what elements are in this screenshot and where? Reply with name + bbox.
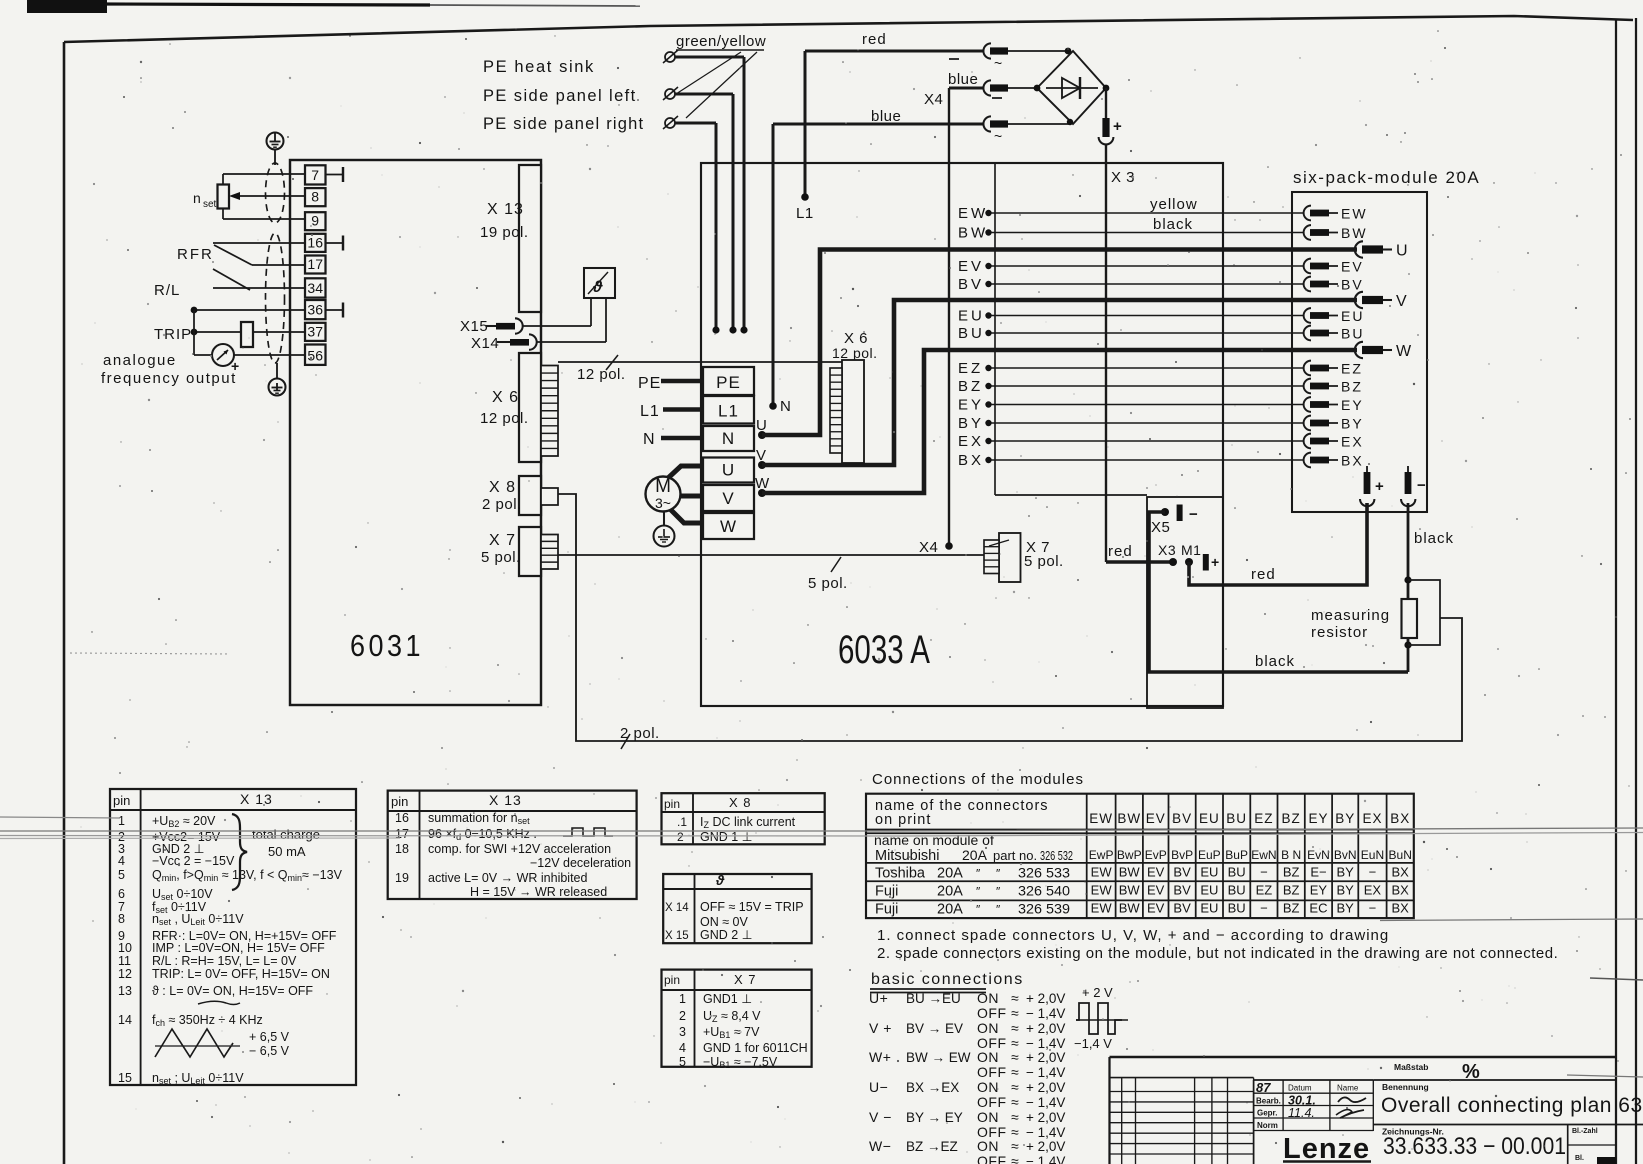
svg-text:BW: BW	[1117, 811, 1141, 826]
svg-text:−: −	[1369, 865, 1377, 880]
svg-text:≈: ≈	[1011, 1020, 1019, 1036]
svg-text:20A: 20A	[962, 847, 988, 863]
svg-text:BY: BY	[1337, 883, 1355, 898]
svg-text:13: 13	[118, 984, 132, 998]
svg-text:EV: EV	[1146, 811, 1166, 826]
svg-text:4: 4	[118, 854, 125, 868]
svg-text:EW: EW	[1091, 901, 1113, 916]
svg-text:ϑ: ϑ	[715, 872, 725, 888]
svg-text:− 1,4V: − 1,4V	[1026, 1036, 1065, 1051]
svg-text:X5: X5	[1151, 519, 1170, 536]
svg-text:EU: EU	[1341, 308, 1364, 324]
svg-text:EY: EY	[958, 397, 984, 414]
svg-text:19: 19	[395, 871, 409, 885]
svg-text:9: 9	[311, 213, 319, 229]
svg-text:2 pol.: 2 pol.	[620, 725, 660, 742]
svg-text:X15: X15	[460, 318, 488, 335]
svg-text:≈: ≈	[1011, 1153, 1019, 1164]
svg-text:+ 2,0V: + 2,0V	[1026, 1139, 1065, 1154]
svg-text:pin: pin	[113, 793, 130, 808]
svg-text:BvN: BvN	[1334, 848, 1357, 862]
svg-text:pin: pin	[391, 794, 408, 809]
svg-text:EY: EY	[1341, 397, 1364, 413]
svg-text:EuP: EuP	[1198, 848, 1221, 862]
svg-text:BZ: BZ	[1283, 865, 1300, 880]
svg-text:GND 2 ⊥: GND 2 ⊥	[700, 928, 753, 942]
svg-text:EY: EY	[1310, 883, 1328, 898]
svg-text:Lenze: Lenze	[1283, 1133, 1370, 1164]
svg-text:326 539: 326 539	[1018, 901, 1070, 917]
svg-text:U−: U−	[869, 1079, 888, 1095]
svg-text:V +: V +	[869, 1020, 892, 1036]
svg-text:− 1,4V: − 1,4V	[1026, 1125, 1065, 1140]
svg-text:6033 A: 6033 A	[838, 628, 930, 672]
svg-text:BW: BW	[1119, 883, 1141, 898]
svg-text:R/L: R/L	[154, 282, 180, 299]
svg-text:5 pol.: 5 pol.	[808, 575, 848, 592]
svg-text:EZ: EZ	[958, 360, 983, 377]
svg-text:12: 12	[118, 967, 132, 981]
svg-text:−UB1 ≈ −7,5V: −UB1 ≈ −7,5V	[703, 1055, 778, 1070]
svg-text:Bearb.: Bearb.	[1256, 1097, 1281, 1106]
svg-text:EV: EV	[1147, 883, 1165, 898]
svg-text:37: 37	[307, 323, 323, 339]
svg-text:BZ: BZ	[1283, 883, 1300, 898]
svg-text:326 533: 326 533	[1018, 865, 1070, 881]
svg-text:Toshiba: Toshiba	[875, 866, 926, 882]
svg-text:2: 2	[679, 1009, 686, 1023]
svg-text:OFF ≈ 15V = TRIP: OFF ≈ 15V = TRIP	[700, 900, 804, 914]
svg-text:− 6,5 V: − 6,5 V	[249, 1044, 290, 1058]
svg-text:10: 10	[118, 941, 132, 955]
svg-text:20A: 20A	[937, 866, 963, 882]
svg-text:16: 16	[307, 234, 323, 250]
svg-text:BX: BX	[958, 452, 984, 469]
svg-text:Bl.: Bl.	[1575, 1155, 1584, 1162]
svg-text:5 pol.: 5 pol.	[481, 549, 521, 566]
svg-text:12 pol.: 12 pol.	[832, 345, 878, 361]
svg-text:−Vcc 2 = −15V: −Vcc 2 = −15V	[152, 854, 235, 868]
svg-text:8: 8	[118, 912, 125, 926]
svg-text:BY → EY: BY → EY	[906, 1110, 963, 1125]
svg-text:BU: BU	[1226, 811, 1247, 826]
svg-text:EV: EV	[1147, 865, 1165, 880]
svg-text:≈: ≈	[1011, 1138, 1019, 1154]
svg-text:≈: ≈	[1011, 1079, 1019, 1095]
svg-text:+: +	[1211, 554, 1219, 570]
svg-text:X3: X3	[1158, 542, 1176, 558]
svg-text:OFF: OFF	[977, 1153, 1007, 1164]
svg-text:BvP: BvP	[1171, 848, 1193, 862]
svg-text:red: red	[862, 31, 887, 48]
svg-text:BU: BU	[1341, 326, 1364, 342]
svg-text:3~: 3~	[655, 495, 671, 511]
svg-text:BuP: BuP	[1225, 848, 1248, 862]
svg-text:6: 6	[118, 887, 125, 901]
svg-text:−: −	[1189, 506, 1198, 523]
svg-text:black: black	[1414, 530, 1454, 547]
svg-text:BX →EX: BX →EX	[906, 1080, 959, 1095]
svg-text:red: red	[1251, 566, 1276, 583]
svg-text:name on module of: name on module of	[874, 832, 994, 848]
svg-text:Fuji: Fuji	[875, 884, 898, 900]
svg-text:BV: BV	[1173, 865, 1191, 880]
svg-text:+ 2,0V: + 2,0V	[1026, 1050, 1065, 1065]
svg-text:L1: L1	[640, 403, 660, 420]
svg-text:IMP : L=0V=ON, H= 15V= OFF: IMP : L=0V=ON, H= 15V= OFF	[152, 941, 325, 955]
svg-text:+UB1 ≈ 7V: +UB1 ≈ 7V	[703, 1025, 760, 1040]
svg-text:20A: 20A	[937, 884, 963, 900]
svg-text:W+: W+	[869, 1049, 891, 1065]
svg-text:ON: ON	[977, 1138, 999, 1154]
svg-text:BX: BX	[1392, 883, 1410, 898]
svg-text:+: +	[1113, 118, 1122, 135]
svg-text:EvP: EvP	[1145, 848, 1167, 862]
svg-text:PE heat sink: PE heat sink	[483, 58, 595, 76]
svg-text:black: black	[1153, 216, 1193, 233]
svg-text:GND1 ⊥: GND1 ⊥	[703, 992, 752, 1006]
svg-text:ON: ON	[977, 990, 999, 1006]
svg-text:measuring: measuring	[1311, 607, 1390, 624]
svg-text:X 14: X 14	[665, 902, 689, 914]
svg-text:8: 8	[311, 189, 319, 205]
svg-text:EU: EU	[1200, 865, 1218, 880]
svg-text:+ 6,5 V: + 6,5 V	[249, 1030, 290, 1044]
svg-text:R/L : R=H= 15V, L= L= 0V: R/L : R=H= 15V, L= L= 0V	[152, 954, 297, 968]
svg-text:Norm: Norm	[1257, 1121, 1278, 1130]
svg-text:X 8: X 8	[729, 795, 752, 810]
svg-text:active L= 0V → WR inhibited: active L= 0V → WR inhibited	[428, 871, 587, 885]
svg-text:+ 2,0V: + 2,0V	[1026, 1110, 1065, 1125]
svg-text:B N: B N	[1281, 848, 1301, 862]
svg-text:BU →EU: BU →EU	[906, 991, 961, 1006]
svg-text:GND 1 ⊥: GND 1 ⊥	[700, 830, 753, 844]
svg-text:pin: pin	[664, 797, 680, 811]
svg-text:≈: ≈	[1011, 990, 1019, 1006]
svg-text:BV → EV: BV → EV	[906, 1021, 963, 1036]
svg-text:−: −	[1260, 865, 1268, 880]
svg-text:BuN: BuN	[1389, 848, 1412, 862]
svg-text:X 3: X 3	[1111, 169, 1135, 186]
svg-text:resistor: resistor	[1311, 624, 1368, 641]
svg-text:BW: BW	[1341, 225, 1368, 241]
svg-text:12 pol.: 12 pol.	[480, 410, 529, 427]
svg-text:PE: PE	[638, 375, 661, 392]
svg-text:yellow: yellow	[1150, 196, 1198, 213]
svg-text:EwP: EwP	[1089, 848, 1114, 862]
svg-text:Datum: Datum	[1288, 1084, 1312, 1093]
svg-text:N: N	[780, 398, 791, 415]
svg-text:IZ DC link current: IZ DC link current	[700, 815, 796, 830]
svg-text:BW → EW: BW → EW	[906, 1050, 971, 1065]
svg-text:part no.: part no.	[993, 848, 1037, 863]
svg-text:EZ: EZ	[1254, 811, 1273, 826]
svg-text:+ 2,0V: + 2,0V	[1026, 991, 1065, 1006]
svg-text:frequency output: frequency output	[101, 370, 237, 387]
svg-text:W: W	[720, 517, 737, 536]
svg-text:Maßstab: Maßstab	[1394, 1062, 1428, 1072]
svg-text:BV: BV	[1173, 901, 1191, 916]
svg-text:EX: EX	[958, 433, 984, 450]
svg-text:ON ≈ 0V: ON ≈ 0V	[700, 915, 749, 929]
svg-text:Fuji: Fuji	[875, 902, 898, 918]
svg-text:H = 15V → WR released: H = 15V → WR released	[470, 885, 607, 899]
svg-text:50 mA: 50 mA	[268, 844, 306, 859]
svg-text:U: U	[722, 461, 735, 480]
svg-text:L1: L1	[718, 402, 739, 421]
svg-text:GND 1 for 6011CH: GND 1 for 6011CH	[703, 1041, 808, 1055]
svg-text:~: ~	[994, 128, 1002, 144]
svg-text:Bl.-Zahl: Bl.-Zahl	[1572, 1128, 1598, 1135]
svg-text:EV: EV	[1147, 901, 1165, 916]
svg-text:W: W	[1396, 343, 1412, 360]
svg-text:EuN: EuN	[1361, 848, 1384, 862]
svg-text:BY: BY	[1335, 811, 1355, 826]
svg-text:≈: ≈	[1011, 1109, 1019, 1125]
svg-text:BwP: BwP	[1117, 848, 1142, 862]
svg-text:N: N	[722, 429, 735, 448]
svg-text:6031: 6031	[350, 628, 424, 663]
svg-text:≈: ≈	[1011, 1064, 1019, 1080]
svg-text:X 13: X 13	[487, 201, 524, 218]
svg-text:blue: blue	[948, 71, 978, 88]
svg-text:EU: EU	[1200, 883, 1218, 898]
svg-text:red: red	[1108, 543, 1133, 560]
svg-text:36: 36	[307, 302, 323, 318]
svg-text:set: set	[203, 199, 217, 210]
svg-text:BZ: BZ	[1341, 379, 1363, 395]
svg-text:2: 2	[677, 830, 684, 844]
svg-text:V: V	[722, 489, 734, 508]
svg-text:M1: M1	[1181, 542, 1201, 558]
svg-text:+UB2 ≈ 20V: +UB2 ≈ 20V	[152, 814, 216, 829]
svg-text:BZ: BZ	[1283, 901, 1300, 916]
svg-text:N: N	[643, 431, 655, 448]
svg-text:black: black	[1255, 653, 1295, 670]
svg-text:− 1,4V: − 1,4V	[1026, 1065, 1065, 1080]
svg-text:EX: EX	[1364, 883, 1382, 898]
svg-text:Benennung: Benennung	[1382, 1082, 1429, 1092]
svg-text:on print: on print	[875, 812, 931, 828]
svg-text:17: 17	[307, 256, 323, 272]
svg-text:M: M	[655, 476, 671, 497]
svg-text:≈: ≈	[1011, 1049, 1019, 1065]
svg-text:V: V	[1396, 293, 1407, 310]
svg-text:six-pack-module 20A: six-pack-module 20A	[1293, 168, 1480, 187]
svg-text:5 pol.: 5 pol.	[1024, 553, 1064, 570]
svg-text:BY: BY	[1341, 416, 1364, 432]
svg-text:U: U	[1396, 243, 1408, 260]
svg-text:20A: 20A	[937, 902, 963, 918]
svg-text:− 1,4V: − 1,4V	[1026, 1006, 1065, 1021]
svg-text:ON: ON	[977, 1020, 999, 1036]
svg-text:≈: ≈	[1011, 1094, 1019, 1110]
svg-text:blue: blue	[871, 108, 901, 125]
svg-text:5: 5	[118, 868, 125, 882]
svg-text:U+: U+	[869, 990, 888, 1006]
svg-text:RFR: RFR	[177, 246, 214, 263]
svg-text:BZ: BZ	[958, 378, 983, 395]
svg-text:EY: EY	[1308, 811, 1328, 826]
svg-text:1. connect spade connectors: 1. connect spade connectors U, V, W, + a…	[877, 927, 1389, 944]
svg-text:Name: Name	[1337, 1084, 1359, 1093]
svg-text:X 6: X 6	[492, 389, 519, 406]
svg-text:OFF: OFF	[977, 1005, 1007, 1021]
svg-text:BV: BV	[1341, 277, 1364, 293]
svg-text:EC: EC	[1309, 901, 1327, 916]
svg-text:BY: BY	[958, 415, 984, 432]
svg-text:BV: BV	[958, 276, 984, 293]
svg-text:E−: E−	[1310, 865, 1326, 880]
svg-text:326 532: 326 532	[1040, 848, 1073, 863]
svg-text:Gepr.: Gepr.	[1257, 1109, 1277, 1118]
svg-text:BW: BW	[1119, 865, 1141, 880]
svg-text:EwN: EwN	[1251, 848, 1276, 862]
svg-text:BU: BU	[958, 325, 985, 342]
svg-text:34: 34	[307, 280, 323, 296]
svg-text:96 ×fd 0÷10,5 KHz .: 96 ×fd 0÷10,5 KHz .	[428, 827, 537, 842]
svg-text:18: 18	[395, 842, 409, 856]
svg-text:16: 16	[395, 811, 409, 825]
svg-text:Connections of the modules: Connections of the modules	[872, 771, 1084, 788]
svg-text:.1: .1	[677, 815, 687, 829]
svg-text:EW: EW	[1091, 883, 1113, 898]
svg-text:BZ: BZ	[1282, 811, 1301, 826]
svg-text:ϑ : L= 0V= ON, H=15V= OFF: ϑ : L= 0V= ON, H=15V= OFF	[152, 984, 313, 998]
svg-text:Overall connecting plan 633: Overall connecting plan 633	[1381, 1094, 1643, 1117]
svg-text:W−: W−	[869, 1138, 891, 1154]
svg-text:PE side panel left: PE side panel left	[483, 87, 637, 105]
svg-text:−: −	[1369, 901, 1377, 916]
svg-text:~: ~	[994, 55, 1002, 71]
svg-text:Mitsubishi: Mitsubishi	[875, 848, 939, 864]
svg-text:− 1,4V: − 1,4V	[1026, 1095, 1065, 1110]
svg-text:BY: BY	[1337, 865, 1355, 880]
svg-text:pin: pin	[664, 973, 680, 987]
svg-text:7: 7	[311, 167, 319, 183]
svg-text:1: 1	[679, 992, 686, 1006]
svg-text:EW: EW	[958, 205, 988, 222]
svg-text:ON: ON	[977, 1109, 999, 1125]
svg-text:X 7: X 7	[489, 532, 516, 549]
svg-text:X 15: X 15	[665, 930, 689, 942]
svg-text:BW: BW	[958, 225, 988, 242]
svg-text:OFF: OFF	[977, 1064, 1007, 1080]
svg-text:4: 4	[679, 1041, 686, 1055]
svg-text:X 13: X 13	[240, 791, 273, 807]
svg-text:3: 3	[679, 1025, 686, 1039]
svg-text:X 7: X 7	[734, 972, 757, 987]
svg-text:BU: BU	[1228, 865, 1246, 880]
svg-text:+ 2 V: + 2 V	[1082, 985, 1113, 1000]
svg-text:33.633.33 − 00.001: 33.633.33 − 00.001	[1383, 1133, 1566, 1160]
svg-text:EV: EV	[1341, 259, 1364, 275]
svg-text:1: 1	[118, 814, 125, 828]
svg-text:+: +	[1375, 478, 1384, 495]
svg-text:EW: EW	[1089, 811, 1113, 826]
svg-text:2. spade connectors existin: 2. spade connectors existing on the modu…	[877, 945, 1558, 962]
svg-text:EU: EU	[958, 308, 985, 325]
svg-text:15: 15	[118, 1071, 132, 1085]
svg-text:EZ: EZ	[1256, 883, 1273, 898]
svg-text:X4: X4	[924, 91, 943, 108]
svg-text:326 540: 326 540	[1018, 883, 1070, 899]
svg-text:17: 17	[395, 827, 409, 841]
svg-text:BV: BV	[1173, 883, 1191, 898]
svg-text:BX: BX	[1341, 453, 1364, 469]
svg-text:PE: PE	[716, 373, 741, 392]
svg-text:EW: EW	[1091, 865, 1113, 880]
svg-text:BX: BX	[1390, 811, 1410, 826]
svg-text:L1: L1	[796, 205, 814, 222]
svg-text:−: −	[1417, 477, 1426, 494]
svg-text:BU: BU	[1228, 901, 1246, 916]
svg-text:BV: BV	[1172, 811, 1192, 826]
svg-text:11: 11	[118, 954, 131, 968]
svg-text:comp. for SWI +12V accelerati: comp. for SWI +12V acceleration	[428, 842, 611, 856]
svg-text:BY: BY	[1337, 901, 1355, 916]
svg-text:total charge: total charge	[252, 827, 320, 842]
svg-text:11.4.: 11.4.	[1288, 1106, 1315, 1120]
svg-text:EW: EW	[1341, 206, 1368, 222]
svg-text:5: 5	[679, 1055, 686, 1069]
svg-text:Qmin, f>Qmin ≈ 13V, f < Qmin≈: Qmin, f>Qmin ≈ 13V, f < Qmin≈ −13V	[152, 868, 343, 883]
svg-text:EV: EV	[958, 258, 984, 275]
svg-text:X 13: X 13	[489, 792, 522, 808]
svg-text:BX: BX	[1392, 901, 1410, 916]
svg-text:+ 2,0V: + 2,0V	[1026, 1021, 1065, 1036]
svg-text:−12V deceleration: −12V deceleration	[530, 856, 631, 870]
svg-text:≈: ≈	[1011, 1005, 1019, 1021]
svg-text:TRIP: L= 0V= OFF, H=15V= ON: TRIP: L= 0V= OFF, H=15V= ON	[152, 967, 330, 981]
svg-text:n: n	[193, 190, 201, 206]
svg-text:EZ: EZ	[1341, 361, 1363, 377]
svg-text:−1,4 V: −1,4 V	[1074, 1036, 1112, 1051]
svg-text:12 pol.: 12 pol.	[577, 366, 626, 383]
svg-text:basic connections: basic connections	[871, 971, 1024, 988]
svg-text:BW: BW	[1119, 901, 1141, 916]
svg-text:X4: X4	[919, 539, 938, 556]
svg-text:BU: BU	[1228, 883, 1246, 898]
svg-text:ON: ON	[977, 1049, 999, 1065]
svg-text:−: −	[1260, 901, 1268, 916]
svg-text:EvN: EvN	[1307, 848, 1330, 862]
svg-text:V −: V −	[869, 1109, 892, 1125]
svg-text:X 8: X 8	[489, 479, 516, 496]
svg-text:− 1,4V: − 1,4V	[1026, 1154, 1065, 1164]
svg-text:EU: EU	[1199, 811, 1220, 826]
svg-text:87: 87	[1256, 1080, 1271, 1095]
svg-text:X14: X14	[471, 335, 499, 352]
svg-text:56: 56	[307, 347, 323, 363]
svg-text:14: 14	[118, 1013, 132, 1027]
svg-text:green/yellow: green/yellow	[676, 33, 766, 50]
svg-text:analogue: analogue	[103, 352, 177, 369]
svg-text:PE side panel right: PE side panel right	[483, 115, 644, 133]
svg-text:EU: EU	[1200, 901, 1218, 916]
svg-text:TRIP: TRIP	[154, 326, 192, 343]
svg-text:+ 2,0V: + 2,0V	[1026, 1080, 1065, 1095]
svg-text:EX: EX	[1341, 434, 1364, 450]
svg-text:EX: EX	[1362, 811, 1382, 826]
svg-text:19 pol.: 19 pol.	[480, 224, 529, 241]
svg-text:BZ →EZ: BZ →EZ	[906, 1139, 958, 1154]
svg-text:2 pol.: 2 pol.	[482, 496, 522, 513]
svg-text:ON: ON	[977, 1079, 999, 1095]
svg-text:OFF: OFF	[977, 1094, 1007, 1110]
svg-text:fch ≈ 350Hz ÷ 4 KHz: fch ≈ 350Hz ÷ 4 KHz	[152, 1013, 263, 1028]
svg-text:BX: BX	[1392, 865, 1410, 880]
